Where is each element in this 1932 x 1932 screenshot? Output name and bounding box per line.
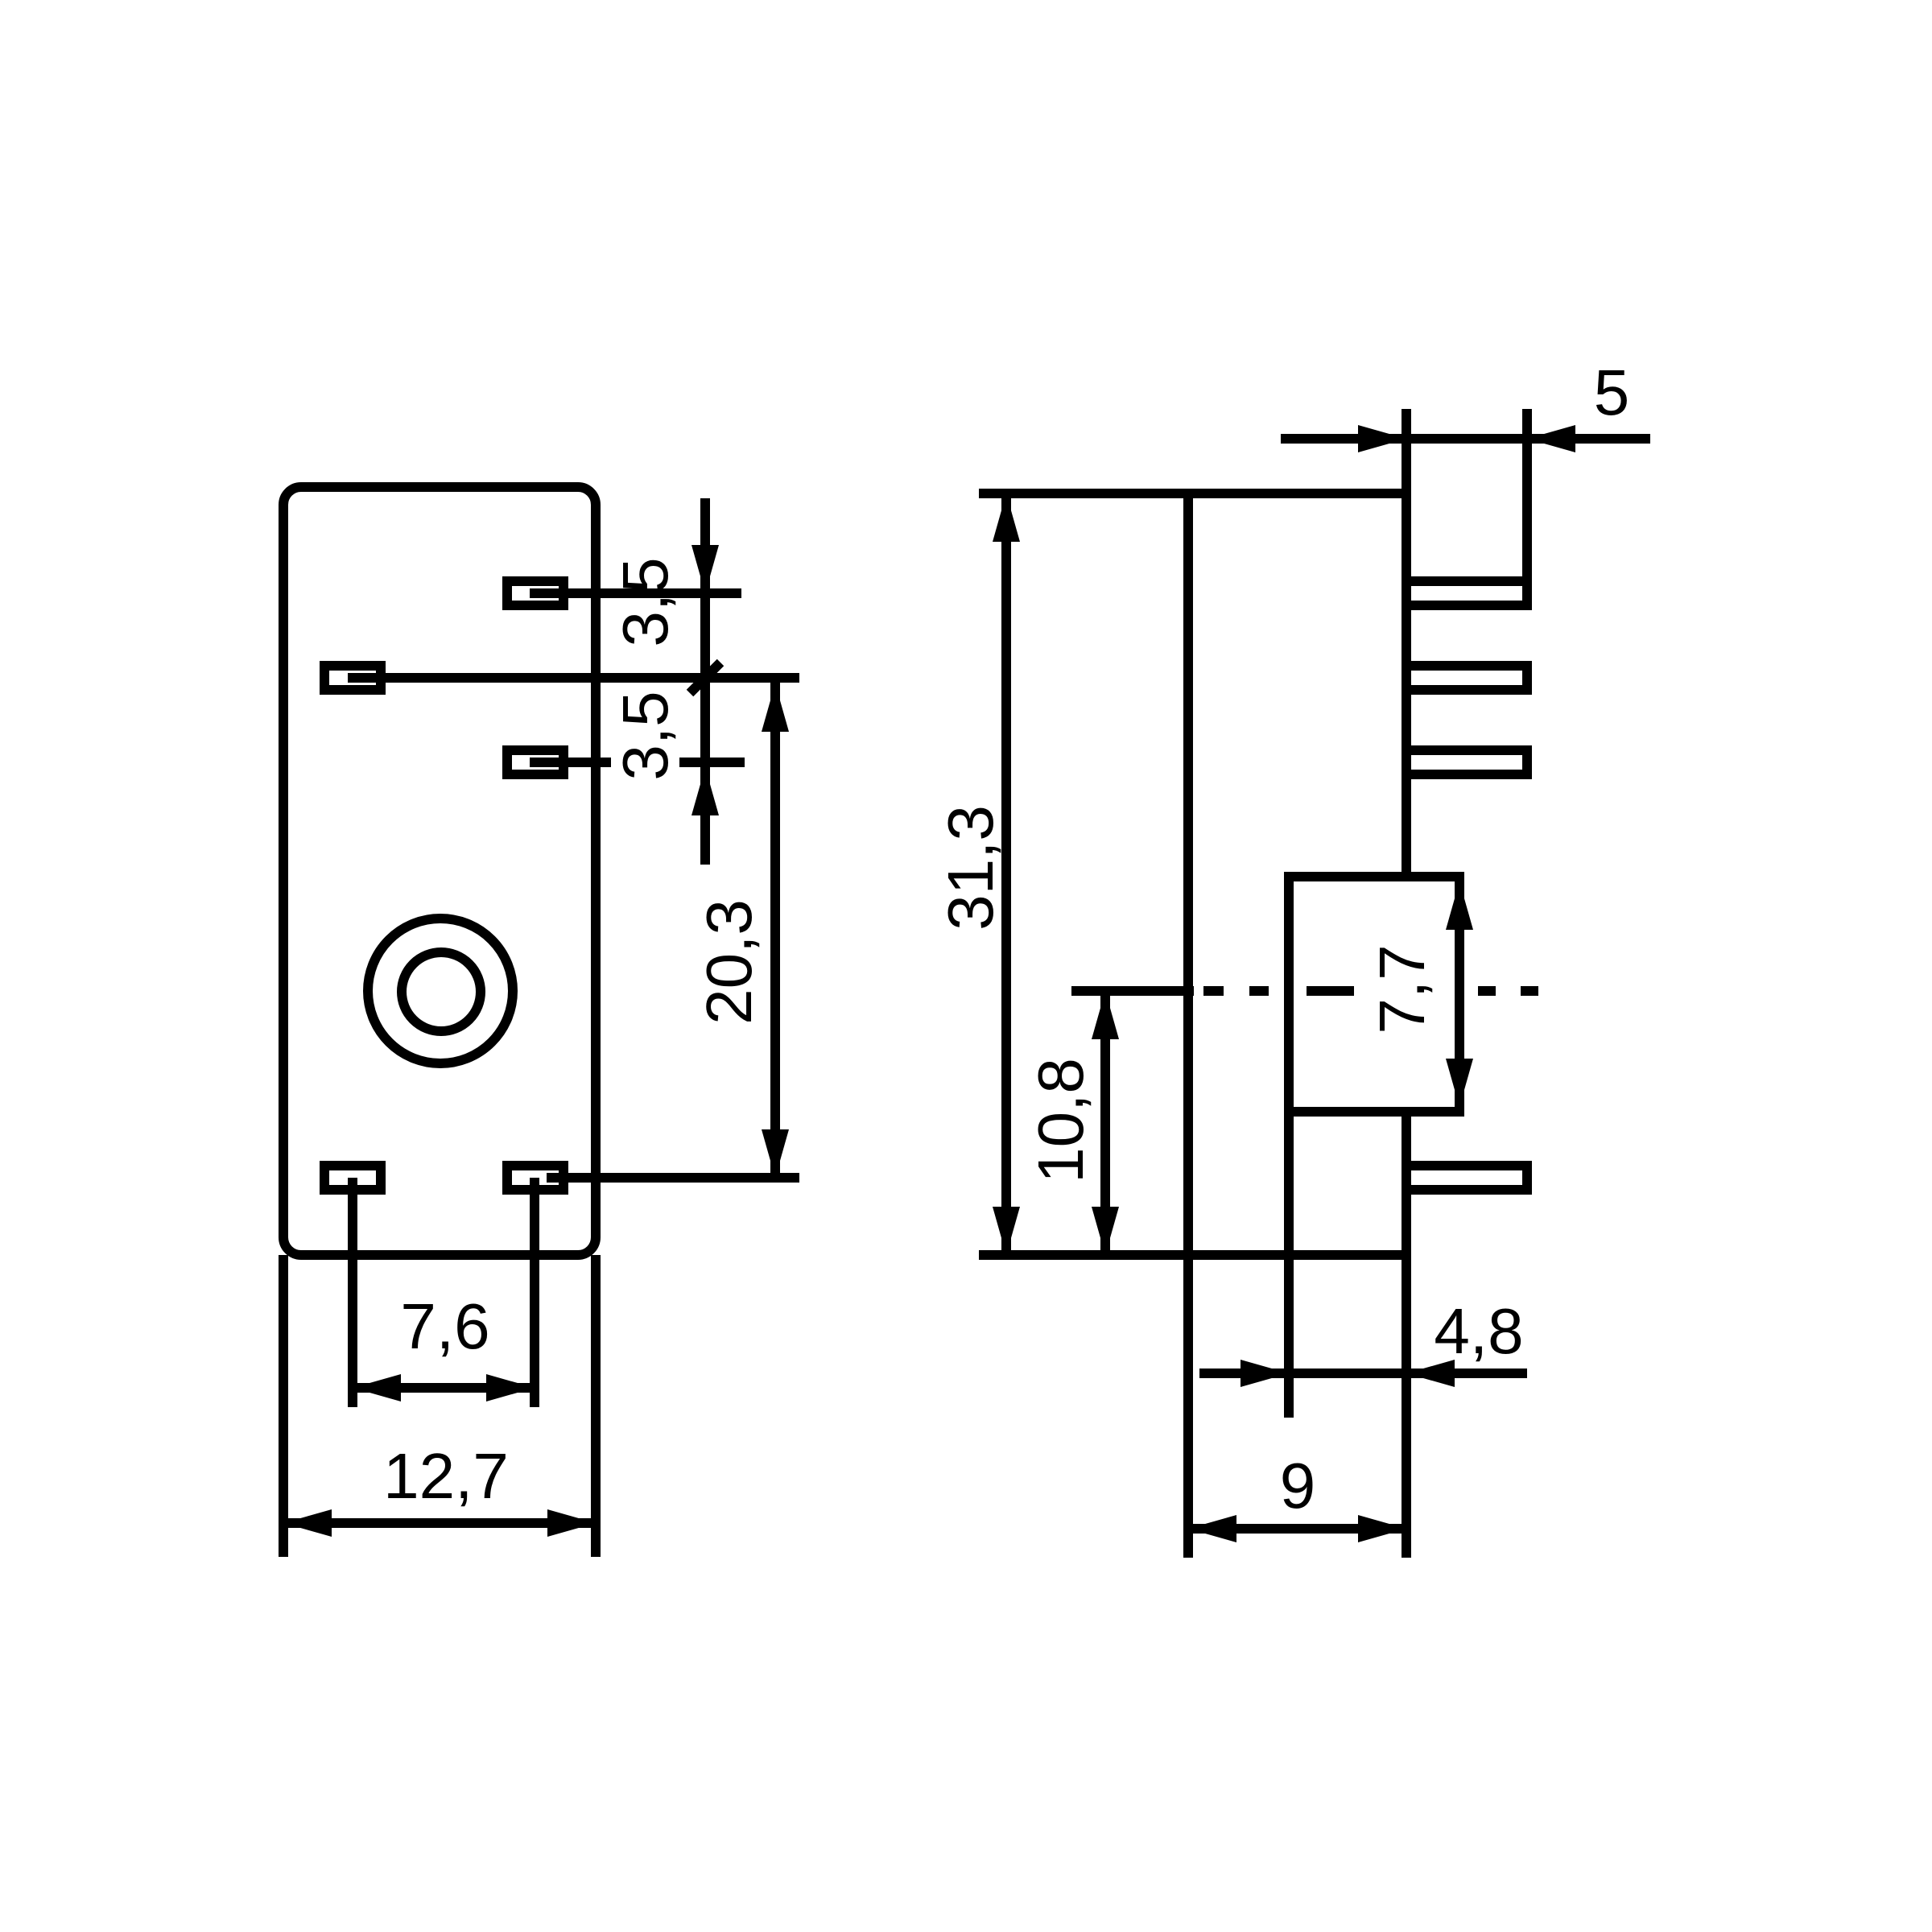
svg-text:5: 5 [1594, 357, 1630, 428]
label 3,5 lower [609, 691, 681, 780]
arrow down 10,8 [1092, 1207, 1119, 1255]
label 3,5 upper [609, 557, 681, 646]
arrow down 7,7 [1446, 1059, 1473, 1107]
side view left edge and 9-dim extension [1183, 493, 1193, 1558]
arrow right 12,7 [547, 1509, 596, 1537]
arrow right 7,6 [486, 1374, 535, 1402]
label 9 [1280, 1450, 1316, 1521]
pin 3 pad (top view) [507, 750, 563, 774]
pin 1 blade (side view) [1406, 581, 1527, 605]
label 7,7 [1366, 944, 1438, 1034]
mounting hole circle outer [368, 919, 513, 1063]
svg-text:3,5: 3,5 [609, 691, 681, 780]
side view right edge upper with 5-dim extension [1402, 409, 1411, 877]
arrow left 12,7 [283, 1509, 332, 1537]
dimension 5 extension right [1522, 409, 1532, 610]
arrow left 9 [1188, 1515, 1236, 1542]
bottom pin blade (side view) [1406, 1166, 1527, 1190]
centerline dash d [1478, 986, 1496, 996]
label 7,6 [400, 1290, 489, 1362]
pin 3 tick at dim line [679, 758, 745, 767]
svg-text:4,8: 4,8 [1434, 1295, 1523, 1367]
mounting hole circle inner [402, 952, 481, 1031]
block left extension for 4,8 [1284, 1112, 1294, 1418]
label 4,8 [1434, 1295, 1523, 1367]
centerline dash c [1307, 986, 1354, 996]
pin 3 leader wire [530, 758, 611, 767]
pin 5 leader wire [547, 1173, 799, 1183]
svg-text:12,7: 12,7 [383, 1440, 509, 1512]
relay body outline (top view) [283, 487, 596, 1255]
label 12,7 [383, 1440, 509, 1512]
svg-text:7,7: 7,7 [1366, 944, 1438, 1034]
oblique tick at pin2 row [690, 663, 720, 693]
dimension line 20,3 [770, 678, 780, 1178]
arrow up to pin2 row [762, 683, 789, 732]
dimension line 10,8 [1100, 991, 1110, 1255]
dimension line 3,5 pair vertical [700, 498, 710, 865]
dimension line 31,3 [1001, 493, 1011, 1255]
arrow right-pointing tip at body edge [1358, 425, 1406, 452]
svg-text:9: 9 [1280, 1450, 1316, 1521]
label 5 [1594, 357, 1630, 428]
side view right edge lower and 9-dim extension [1402, 1112, 1411, 1558]
arrow left 7,6 [353, 1374, 401, 1402]
pin 1 leader wire [530, 588, 741, 598]
arrow down to bottom pin row [762, 1129, 789, 1178]
centerline dash a [1203, 986, 1224, 996]
svg-text:7,6: 7,6 [400, 1290, 489, 1362]
arrow up 31,3 [993, 493, 1020, 542]
label 10,8 [1025, 1058, 1096, 1183]
dimension 4,8 line [1199, 1368, 1527, 1378]
svg-text:3,5: 3,5 [609, 557, 681, 646]
dimension line 7,6 [353, 1383, 535, 1393]
pin 3 blade (side view) [1406, 750, 1527, 774]
svg-text:10,8: 10,8 [1025, 1058, 1096, 1183]
svg-text:31,3: 31,3 [935, 805, 1006, 931]
dimension 5 line [1281, 434, 1650, 444]
arrow left-pointing tip at pin end [1527, 425, 1575, 452]
arrow down to pin1 row [691, 545, 719, 593]
pin 5 extension line [530, 1178, 539, 1407]
pin 1 pad (top view) [507, 581, 563, 605]
body right extension line [591, 1255, 601, 1557]
centerline dash b [1249, 986, 1269, 996]
centerline solid segment [1071, 986, 1194, 996]
dimension 7,7 arrows on block edge [1446, 881, 1473, 930]
pin 5 pad (top view) [507, 1166, 563, 1190]
dimension line 12,7 [283, 1518, 596, 1528]
coil block (side view) [1289, 877, 1459, 1112]
label 31,3 [935, 805, 1006, 931]
arrow up to pin3 row [691, 767, 719, 815]
arrow down 31,3 [993, 1207, 1020, 1255]
pin 2 leader wire [348, 673, 799, 683]
pin 2 pad (top view) [324, 666, 381, 690]
pin 2 blade (side view) [1406, 666, 1527, 690]
label 20,3 [693, 899, 765, 1025]
arrow right-pointing tip at block edge [1241, 1360, 1289, 1387]
side view top edge [979, 489, 1406, 498]
pin 4 extension line [348, 1178, 357, 1407]
arrow right 9 [1358, 1515, 1406, 1542]
svg-text:20,3: 20,3 [693, 899, 765, 1025]
arrow left-pointing tip at body edge [1406, 1360, 1455, 1387]
pin 4 pad (top view) [324, 1166, 381, 1190]
side view bottom edge [979, 1250, 1406, 1260]
centerline dash e [1521, 986, 1538, 996]
arrow up 10,8 [1092, 991, 1119, 1039]
dimension line 9 [1188, 1524, 1406, 1534]
body left extension line [279, 1255, 288, 1557]
